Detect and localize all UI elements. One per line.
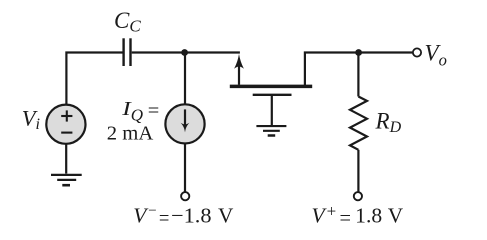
svg-text:CC: CC — [114, 8, 141, 36]
transistor M1 gate bar — [253, 94, 292, 96]
voltage source V_i — [46, 105, 85, 144]
label I_Q = — [121, 98, 159, 125]
svg-text:=: = — [148, 100, 160, 122]
svg-text:V: V — [133, 203, 149, 227]
svg-text:+: + — [327, 201, 337, 220]
ground (gate) — [256, 126, 286, 135]
svg-text:Q: Q — [131, 106, 143, 125]
wire node A down to current source — [184, 53, 186, 105]
transistor M1 source arrow — [234, 54, 244, 85]
svg-text:V: V — [218, 203, 234, 227]
wire resistor to V+ terminal — [357, 150, 359, 192]
svg-text:V: V — [312, 203, 328, 227]
wire drain to node B and terminal Vo — [305, 53, 413, 87]
label V- = -1.8 V — [133, 203, 234, 230]
svg-text:=: = — [159, 206, 170, 230]
svg-text:2 mA: 2 mA — [107, 123, 154, 144]
node B junction dot — [355, 49, 362, 56]
svg-text:=: = — [340, 206, 352, 230]
label V+ = 1.8 V — [312, 201, 404, 229]
svg-text:−1.8: −1.8 — [171, 203, 212, 227]
svg-text:−: − — [148, 203, 156, 219]
svg-text:Vo: Vo — [425, 41, 447, 70]
svg-text:Vi: Vi — [22, 106, 40, 134]
wire node B down to resistor — [357, 53, 359, 97]
resistor R_D zigzag — [350, 97, 367, 150]
ground (below Vi) — [51, 175, 82, 185]
node A junction dot — [181, 49, 188, 56]
svg-text:RD: RD — [375, 108, 402, 136]
svg-text:1.8: 1.8 — [355, 203, 382, 227]
terminal V- open circle — [181, 192, 189, 200]
wire current source to V- terminal — [184, 143, 186, 192]
transistor M1 channel bar — [230, 85, 312, 89]
terminal V+ open circle — [354, 192, 362, 200]
capacitor C_C — [124, 38, 131, 66]
terminal Vo open circle — [413, 48, 421, 56]
current source I_Q — [165, 104, 204, 143]
wire top-left from Vi to capacitor — [66, 53, 122, 105]
wire capacitor to node A and to transistor source — [132, 51, 240, 53]
wire Vi to ground — [65, 144, 67, 174]
wire gate to ground — [271, 95, 273, 125]
svg-text:V: V — [388, 203, 404, 227]
